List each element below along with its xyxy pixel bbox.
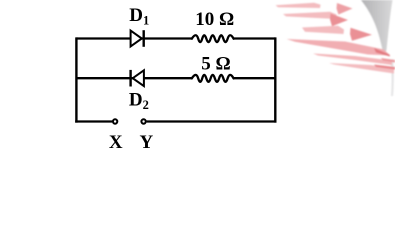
watermark: dark line at stripe 5	[374, 65, 395, 70]
watermark: dark tip of stripe 1	[337, 3, 353, 15]
wire: top rail	[76, 37, 275, 39]
watermark: gray blade	[361, 0, 393, 55]
watermark: dark wedge at stripe 3 end	[350, 28, 372, 41]
watermark: dark wedge at stripe 2 end	[330, 14, 348, 27]
diode D1	[131, 30, 144, 47]
svg-text:D2: D2	[129, 90, 149, 112]
wire: bottom rail right segment	[147, 120, 277, 122]
wire: left vertical	[75, 37, 77, 122]
watermark: feather stripe 3	[302, 26, 344, 34]
watermark: dark red tip of stripe 4	[374, 48, 390, 57]
watermark: big feather stripe 4	[287, 39, 391, 56]
watermark: feather stripe 1	[276, 3, 321, 8]
diode D2	[131, 70, 144, 87]
wire: right vertical	[274, 37, 276, 122]
watermark: dark line at stripe 4b	[381, 58, 395, 63]
resistor R2 5 ohm	[192, 75, 234, 82]
watermark: feather stripe 4b	[313, 54, 392, 66]
watermark: feather stripe 2	[283, 12, 337, 19]
svg-text:10 Ω: 10 Ω	[195, 9, 234, 30]
svg-text:5 Ω: 5 Ω	[201, 53, 230, 74]
resistor R1 10 ohm	[192, 35, 234, 42]
svg-text:Y: Y	[140, 132, 154, 153]
wire: middle rail	[76, 77, 275, 79]
terminal Y	[141, 119, 145, 123]
watermark: feather stripe 5	[329, 63, 394, 74]
watermark: gray streak lower right	[390, 59, 394, 96]
wire: bottom rail left segment	[75, 120, 112, 122]
svg-text:X: X	[109, 132, 123, 153]
svg-text:D1: D1	[129, 5, 149, 27]
terminal X	[113, 119, 117, 123]
